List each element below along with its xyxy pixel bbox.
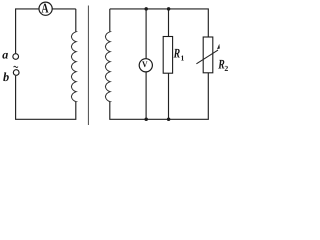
svg-text:1: 1 (181, 54, 185, 63)
svg-text:b: b (3, 70, 9, 84)
svg-text:A: A (41, 0, 48, 15)
svg-text:a: a (2, 48, 8, 62)
svg-text:2: 2 (224, 64, 228, 73)
svg-text:V: V (142, 59, 148, 69)
svg-text:R: R (173, 45, 180, 60)
